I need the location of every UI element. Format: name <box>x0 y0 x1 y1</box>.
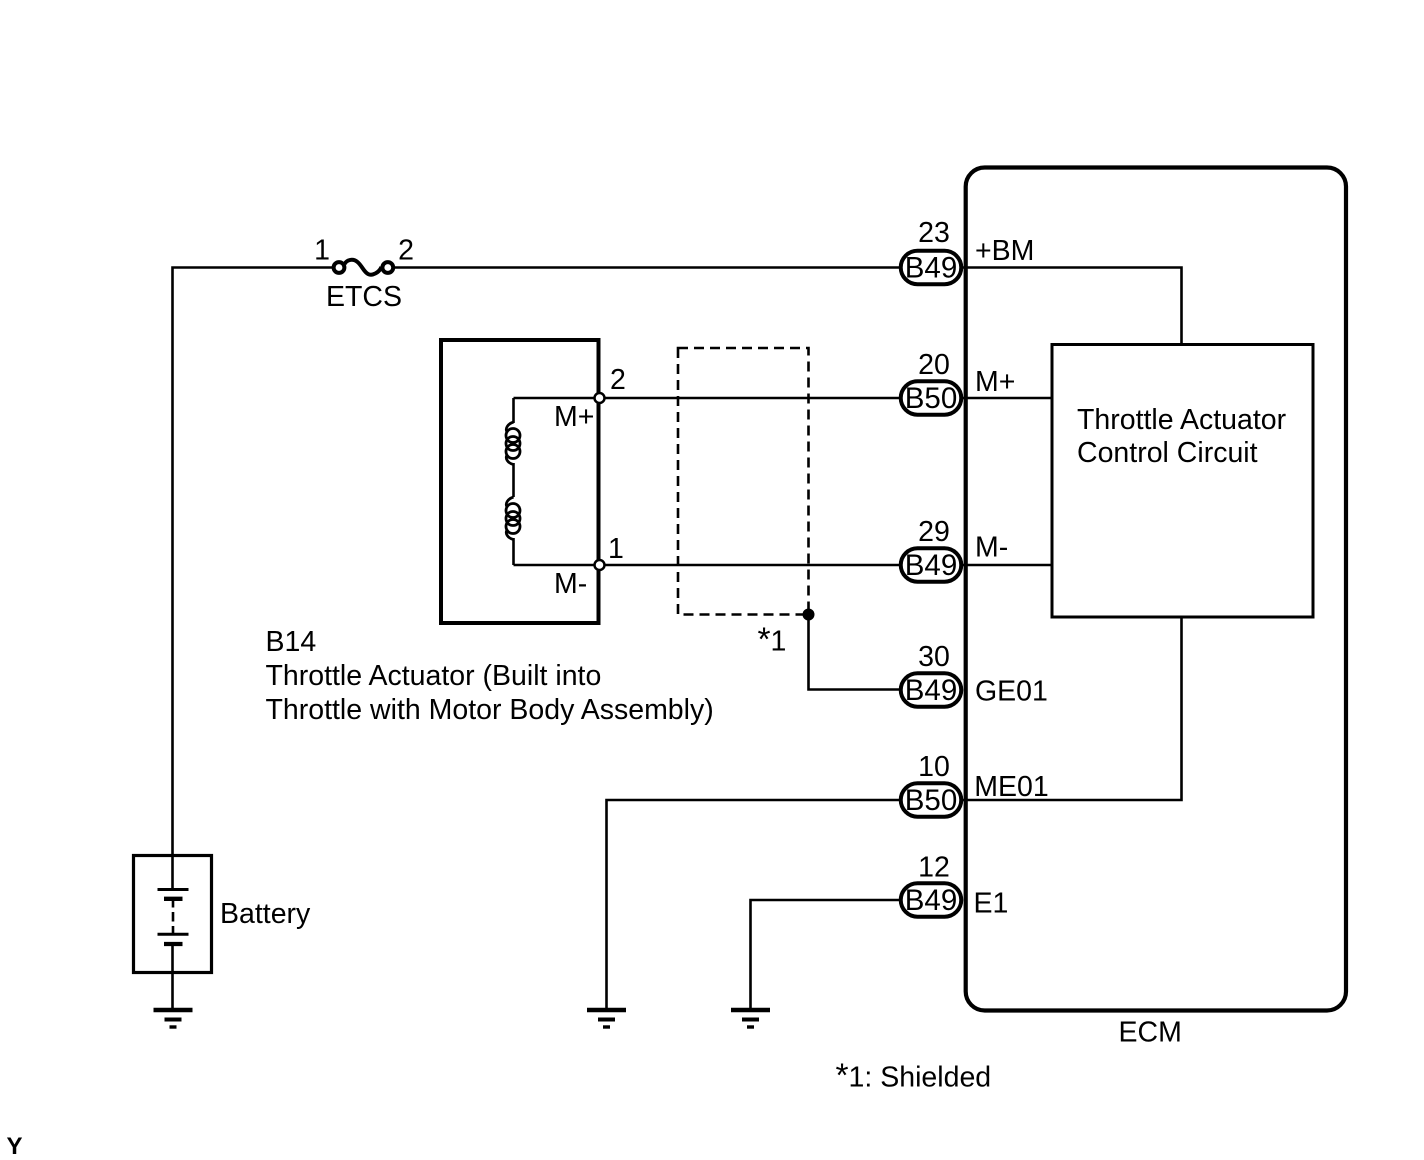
wire M- internal <box>963 564 1052 567</box>
svg-text:ECM: ECM <box>1119 1017 1182 1049</box>
svg-text:M-: M- <box>975 532 1008 564</box>
ground (E1) <box>731 1010 770 1027</box>
component note B14 <box>266 626 714 726</box>
svg-text:B50: B50 <box>905 382 958 415</box>
connector B50 pin 20 (M+) <box>901 381 962 415</box>
throttle actuator B14 box <box>441 340 599 623</box>
svg-text:E1: E1 <box>974 888 1009 920</box>
ECM box <box>966 168 1346 1011</box>
svg-text:20: 20 <box>918 349 950 381</box>
wire shield to GE01 <box>809 615 903 690</box>
motor terminal 2 <box>595 393 605 403</box>
ground (battery) <box>154 1010 193 1027</box>
motor inner wire (vertical) <box>512 398 515 565</box>
svg-text:M+: M+ <box>975 366 1015 398</box>
svg-text:Throttle with Motor Body Assem: Throttle with Motor Body Assembly) <box>266 694 714 726</box>
Throttle Actuator Control Circuit box <box>1052 345 1313 618</box>
svg-text:29: 29 <box>918 516 950 548</box>
shield junction dot <box>803 609 815 621</box>
connector B49 pin 29 (M-) <box>901 548 962 582</box>
svg-text:Throttle Actuator (Built into: Throttle Actuator (Built into <box>266 660 602 692</box>
wire M+ internal <box>963 397 1052 400</box>
svg-text:10: 10 <box>918 751 950 783</box>
connector B49 pin 12 (E1) <box>901 883 962 917</box>
svg-text:23: 23 <box>918 217 950 249</box>
svg-text:M-: M- <box>554 568 587 600</box>
svg-text:M+: M+ <box>554 401 594 433</box>
svg-text:*1: *1 <box>758 622 787 659</box>
wire +BM internal <box>963 268 1182 347</box>
motor coil L1 <box>506 422 520 465</box>
svg-text:B49: B49 <box>905 549 958 582</box>
svg-text:B49: B49 <box>905 252 958 285</box>
motor coil L2 <box>506 497 520 540</box>
svg-text:B50: B50 <box>905 784 958 817</box>
battery symbol <box>158 854 189 974</box>
svg-text:Battery: Battery <box>220 898 311 930</box>
wire battery to ground <box>171 974 174 1010</box>
svg-text:2: 2 <box>398 235 414 267</box>
wire ME01 internal <box>963 617 1182 800</box>
wire ME01 to ground <box>607 800 902 1010</box>
svg-text:B49: B49 <box>905 884 958 917</box>
wire battery to fuse (left vertical + top horizontal) <box>173 268 333 855</box>
svg-text:+BM: +BM <box>975 235 1034 267</box>
wire M- (motor pin 1 to ECM pin 29) <box>514 564 902 567</box>
wire M+ (motor pin 2 to ECM pin 20) <box>514 397 902 400</box>
svg-text:GE01: GE01 <box>975 676 1048 708</box>
shield (dashed box) <box>678 348 809 615</box>
svg-text:B14: B14 <box>266 626 317 658</box>
svg-text:ETCS: ETCS <box>326 281 402 313</box>
motor terminal 1 <box>595 560 605 570</box>
connector B49 pin 30 (GE01) <box>901 673 962 707</box>
wire fuse to ECM pin +BM <box>394 266 901 269</box>
svg-text:B49: B49 <box>905 674 958 707</box>
ground (ME01) <box>587 1010 626 1027</box>
svg-text:2: 2 <box>610 364 626 396</box>
svg-text:Throttle Actuator: Throttle Actuator <box>1077 404 1287 436</box>
svg-text:1: 1 <box>314 235 330 267</box>
svg-text:30: 30 <box>918 641 950 673</box>
svg-text:1: 1 <box>608 533 624 565</box>
svg-text:12: 12 <box>918 852 950 884</box>
svg-text:Control Circuit: Control Circuit <box>1077 437 1258 469</box>
wire E1 to ground <box>751 900 903 1010</box>
svg-text:Y: Y <box>7 1133 23 1160</box>
connector B50 pin 10 (ME01) <box>901 783 962 817</box>
connector B49 pin 23 (+BM) <box>901 251 962 285</box>
svg-text:*1: Shielded: *1: Shielded <box>836 1058 992 1095</box>
battery box <box>134 856 212 973</box>
fuse ETCS <box>334 260 394 275</box>
svg-text:ME01: ME01 <box>974 771 1048 803</box>
